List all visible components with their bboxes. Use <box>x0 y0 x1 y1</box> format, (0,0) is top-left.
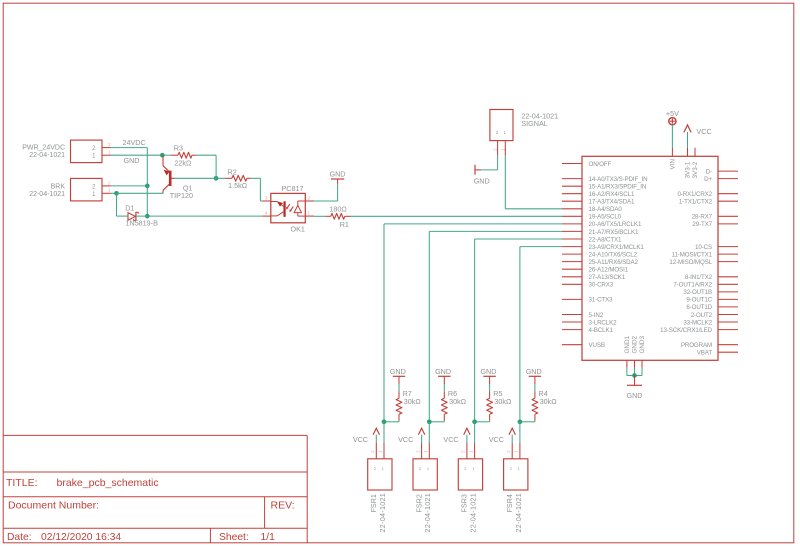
svg-text:11-MOSI/CTX1: 11-MOSI/CTX1 <box>672 251 713 258</box>
svg-text:VIN: VIN <box>670 159 677 170</box>
svg-text:23-A9/CRX1/MCLK1: 23-A9/CRX1/MCLK1 <box>589 244 645 251</box>
svg-text:VBAT: VBAT <box>697 350 713 357</box>
svg-text:1: 1 <box>514 450 519 453</box>
svg-text:PROGRAM: PROGRAM <box>681 342 712 349</box>
svg-text:22-A8/CTX1: 22-A8/CTX1 <box>589 236 623 243</box>
svg-text:22-04-1021: 22-04-1021 <box>29 191 65 198</box>
svg-text:1: 1 <box>500 148 505 151</box>
svg-text:2: 2 <box>370 450 375 453</box>
svg-text:R3: R3 <box>174 143 183 152</box>
svg-text:1: 1 <box>308 211 311 216</box>
pin 1 stub BRK <box>102 188 111 194</box>
svg-text:FSR4: FSR4 <box>505 494 514 512</box>
supply VCC at FSR2 <box>398 428 425 444</box>
connector FSR1 <box>368 443 392 533</box>
svg-text:R2: R2 <box>228 167 237 176</box>
svg-text:21-A7/RX5/BCLK1: 21-A7/RX5/BCLK1 <box>589 229 639 236</box>
svg-text:D+: D+ <box>704 176 712 183</box>
svg-text:22-04-1021: 22-04-1021 <box>378 493 387 533</box>
svg-text:PC817: PC817 <box>282 184 304 193</box>
connector SIGNAL X3 <box>490 110 558 141</box>
wire 24VDC horizontal from PWR pin2 <box>111 147 147 149</box>
svg-text:26-A12/MOSI1: 26-A12/MOSI1 <box>589 267 629 274</box>
svg-text:19-A5/SCL0: 19-A5/SCL0 <box>589 214 622 221</box>
svg-text:2: 2 <box>496 130 499 135</box>
wire VCC to FSR2 pin2 <box>421 435 423 443</box>
connector BRK X1 <box>29 178 102 201</box>
svg-text:3V3-1: 3V3-1 <box>685 161 692 178</box>
pin 2 stub SIGNAL <box>492 141 497 155</box>
svg-text:VCC: VCC <box>398 435 413 444</box>
svg-text:1: 1 <box>382 466 385 471</box>
wire BRK pin1 to Q1 emitter <box>117 192 164 194</box>
svg-text:0-RX1/CRX2: 0-RX1/CRX2 <box>677 191 712 198</box>
svg-text:9-OUT1C: 9-OUT1C <box>686 297 712 304</box>
junction 24VDC / BRK pin2 <box>145 184 150 189</box>
resistor R3 22k <box>174 143 192 167</box>
junction GND join <box>632 373 637 378</box>
svg-text:7-OUT1A/RX2: 7-OUT1A/RX2 <box>673 282 712 289</box>
svg-text:VCC: VCC <box>443 435 458 444</box>
svg-text:+5V: +5V <box>666 109 679 118</box>
svg-text:OK1: OK1 <box>291 224 305 233</box>
svg-text:4: 4 <box>265 211 268 216</box>
svg-text:2: 2 <box>464 466 467 471</box>
wire SIGNAL pin1 to IC pin 18-A4 <box>505 155 562 209</box>
svg-text:1: 1 <box>427 466 430 471</box>
wire GND1 GND2 GND3 join <box>627 368 642 376</box>
wire Q1 base to node <box>175 177 226 179</box>
svg-text:R1: R1 <box>340 220 349 229</box>
svg-text:2-OUT2: 2-OUT2 <box>691 312 713 319</box>
svg-text:1: 1 <box>518 466 521 471</box>
connector FSR4 <box>504 443 528 533</box>
supply VCC at 3V3-1 <box>684 125 712 136</box>
wire OK1 pin1 to R1 <box>314 215 325 217</box>
ground GND at OK1 pin2 <box>330 169 346 184</box>
svg-text:30kΩ: 30kΩ <box>449 397 467 406</box>
wire R5 to node <box>475 421 490 422</box>
svg-text:PWR_24VDC: PWR_24VDC <box>22 145 65 152</box>
svg-text:2: 2 <box>92 184 96 190</box>
svg-text:GND: GND <box>480 367 496 376</box>
wire R1 to IC pin 19-A5 <box>351 215 562 217</box>
opto-coupler OK1 PC817 <box>262 184 314 233</box>
svg-text:2: 2 <box>506 450 511 453</box>
pin 2 stub PWR <box>102 142 111 148</box>
svg-text:15-A1/RX3/SPDIF_IN: 15-A1/RX3/SPDIF_IN <box>589 184 647 191</box>
svg-text:D-: D- <box>706 168 712 175</box>
ground GND above R6 <box>435 367 451 384</box>
wire VCC to FSR3 pin2 <box>466 435 468 443</box>
svg-text:18-A4/SDA0: 18-A4/SDA0 <box>589 206 623 213</box>
svg-text:14-A0/TX3/S-PDIF_IN: 14-A0/TX3/S-PDIF_IN <box>589 176 648 183</box>
svg-text:TIP120: TIP120 <box>170 191 193 200</box>
net label 24VDC <box>123 138 146 147</box>
resistor R7 30k <box>396 389 421 420</box>
svg-text:1/1: 1/1 <box>261 532 276 543</box>
svg-text:1: 1 <box>108 188 111 193</box>
svg-text:VUSB: VUSB <box>589 342 605 349</box>
resistor R2 1.5k <box>225 167 251 190</box>
svg-text:1: 1 <box>423 450 428 453</box>
junction BRK pin1 / D1 anode <box>114 191 119 196</box>
wire R4 to node <box>520 421 535 422</box>
wire IC pin to FSR4 column <box>520 247 562 422</box>
wire VCC to FSR4 pin2 <box>511 435 513 443</box>
svg-text:24VDC: 24VDC <box>123 138 146 147</box>
connector FSR2 <box>413 443 437 533</box>
diode D1 1N5819-B <box>125 203 158 227</box>
svg-text:FSR1: FSR1 <box>369 494 378 512</box>
svg-text:1: 1 <box>504 130 507 135</box>
svg-text:2: 2 <box>108 180 111 185</box>
connector PWR_24VDC X2 <box>22 140 102 163</box>
svg-text:8-IN1/TX2: 8-IN1/TX2 <box>685 274 713 281</box>
svg-text:22-04-1021: 22-04-1021 <box>469 493 478 533</box>
wire VCC to FSR1 pin2 <box>375 435 377 443</box>
svg-text:GND3: GND3 <box>639 336 646 354</box>
svg-text:2: 2 <box>92 146 96 152</box>
wire node to R3 <box>162 154 178 156</box>
svg-text:30kΩ: 30kΩ <box>540 397 558 406</box>
svg-text:1: 1 <box>92 192 96 198</box>
title block <box>3 435 307 543</box>
svg-text:2: 2 <box>415 450 420 453</box>
wire PWR pin1 to node <box>111 154 162 156</box>
svg-text:30kΩ: 30kΩ <box>494 397 512 406</box>
svg-text:GND: GND <box>435 367 451 376</box>
junction FSR2 node <box>427 419 432 424</box>
svg-text:1: 1 <box>108 150 111 155</box>
svg-text:3: 3 <box>265 196 268 201</box>
svg-text:GND: GND <box>627 391 643 400</box>
svg-text:1-TX1/CTX2: 1-TX1/CTX2 <box>679 199 713 206</box>
wire OK1 pin2 to GND <box>314 184 338 201</box>
svg-text:33-MCLK2: 33-MCLK2 <box>683 319 712 326</box>
svg-text:32-OUT1B: 32-OUT1B <box>683 289 712 296</box>
pin 2 stub BRK <box>102 180 111 186</box>
wire D1 anode horizontal <box>117 215 129 217</box>
svg-text:31-CTX3: 31-CTX3 <box>589 297 614 304</box>
svg-text:10-CS: 10-CS <box>695 244 712 251</box>
net label GND (PWR pin1 net) <box>124 156 140 165</box>
wire D1 cathode to OK1 pin4 <box>136 215 262 217</box>
svg-text:GND: GND <box>330 169 346 178</box>
junction PWR pin1 / R3 / Q1 collector <box>160 153 165 158</box>
wire SIGNAL pin2 to GND <box>481 155 498 170</box>
svg-text:REV:: REV: <box>271 500 295 512</box>
junction FSR1 node <box>382 419 387 424</box>
svg-text:180Ω: 180Ω <box>329 204 347 213</box>
svg-text:GND: GND <box>474 177 490 186</box>
wire node to FSR4 pin1 <box>519 422 521 443</box>
svg-text:3V3-2: 3V3-2 <box>692 161 699 178</box>
wire D1 anode vertical <box>116 193 118 216</box>
svg-text:2: 2 <box>108 142 111 147</box>
svg-text:22kΩ: 22kΩ <box>174 158 192 167</box>
svg-text:GND1: GND1 <box>624 336 631 354</box>
wire IC pin to FSR2 column <box>429 231 562 421</box>
svg-text:24-A10/TX6/SCL2: 24-A10/TX6/SCL2 <box>589 251 638 258</box>
svg-text:BRK: BRK <box>51 183 66 190</box>
svg-text:20-A6/TX5/LRCLK1: 20-A6/TX5/LRCLK1 <box>589 221 642 228</box>
wire +5V to VIN <box>671 125 673 148</box>
svg-text:1: 1 <box>378 450 383 453</box>
wire GND to R5 <box>489 384 491 392</box>
wire GND to R4 <box>534 384 536 392</box>
svg-text:30-CRX3: 30-CRX3 <box>589 282 614 289</box>
svg-text:VCC: VCC <box>353 435 368 444</box>
svg-text:22-04-1021: 22-04-1021 <box>514 493 523 533</box>
svg-text:29-TX7: 29-TX7 <box>692 221 712 228</box>
svg-text:28-RX7: 28-RX7 <box>692 214 713 221</box>
svg-text:25-A11/RX6/SDA2: 25-A11/RX6/SDA2 <box>589 259 639 266</box>
svg-text:22-04-1021: 22-04-1021 <box>29 152 65 159</box>
wire IC pin to FSR1 column <box>384 224 562 422</box>
svg-text:16-A2/RX4/SCL1: 16-A2/RX4/SCL1 <box>589 191 635 198</box>
ground GND above R7 <box>390 367 406 384</box>
svg-text:FSR2: FSR2 <box>414 494 423 512</box>
svg-text:Document Number:: Document Number: <box>8 500 99 512</box>
resistor R1 180ohm <box>325 204 351 229</box>
svg-text:02/12/2020 16:34: 02/12/2020 16:34 <box>41 532 121 543</box>
wire node to FSR1 pin1 <box>383 422 385 443</box>
wire 24VDC vertical <box>146 148 148 217</box>
pin 1 stub PWR <box>102 150 111 156</box>
svg-text:2: 2 <box>461 450 466 453</box>
svg-text:17-A3/TX4/SDA1: 17-A3/TX4/SDA1 <box>589 199 635 206</box>
svg-text:TITLE:: TITLE: <box>6 477 38 489</box>
svg-text:1N5819-B: 1N5819-B <box>126 218 159 227</box>
wire GND to R6 <box>443 384 445 392</box>
transistor Q1 TIP120 <box>163 155 193 200</box>
svg-text:5-IN2: 5-IN2 <box>589 312 604 319</box>
junction FSR3 node <box>472 419 477 424</box>
svg-text:3-LRCLK2: 3-LRCLK2 <box>589 319 618 326</box>
svg-text:2: 2 <box>510 466 513 471</box>
svg-text:GND: GND <box>124 156 140 165</box>
supply +5V <box>666 109 679 125</box>
svg-text:GND: GND <box>526 367 542 376</box>
wire IC pin to FSR3 column <box>475 239 562 422</box>
svg-text:1: 1 <box>92 154 96 160</box>
svg-text:22-04-1021: 22-04-1021 <box>423 493 432 533</box>
wire BRK pin1 <box>111 192 117 194</box>
svg-text:D1: D1 <box>125 203 134 212</box>
supply VCC at FSR4 <box>489 428 516 444</box>
wire node to FSR3 pin1 <box>474 422 476 443</box>
resistor R5 30k <box>487 389 512 420</box>
pin 1 stub SIGNAL <box>500 141 505 155</box>
svg-text:Sheet:: Sheet: <box>219 532 249 543</box>
svg-text:1.5kΩ: 1.5kΩ <box>228 181 248 190</box>
connector FSR3 <box>458 443 482 533</box>
wire GND to R7 <box>398 384 400 392</box>
ground GND above R4 <box>526 367 542 384</box>
supply VCC at FSR1 <box>353 428 380 444</box>
svg-text:2: 2 <box>492 148 497 151</box>
svg-text:2: 2 <box>419 466 422 471</box>
IC U1 Teensy 4.0 <box>562 148 738 368</box>
wire VCC to 3V3-1 <box>687 132 689 148</box>
svg-text:2: 2 <box>308 196 311 201</box>
ground GND below IC <box>627 376 643 401</box>
svg-text:Date:: Date: <box>7 532 32 543</box>
junction R3 / Q1 base / R2 <box>214 176 219 181</box>
svg-text:27-A13/SCK1: 27-A13/SCK1 <box>589 274 626 281</box>
svg-text:SIGNAL: SIGNAL <box>521 119 547 128</box>
svg-text:GND: GND <box>390 367 406 376</box>
svg-text:4-BCLK1: 4-BCLK1 <box>589 327 614 334</box>
svg-text:brake_pcb_schematic: brake_pcb_schematic <box>57 477 159 489</box>
svg-text:VCC: VCC <box>697 127 712 136</box>
svg-text:1: 1 <box>468 450 473 453</box>
svg-text:13-SCK/CRX1/LED: 13-SCK/CRX1/LED <box>660 327 712 334</box>
wire R6 to node <box>429 421 444 422</box>
ground GND above R5 <box>480 367 496 384</box>
svg-text:6-OUT1D: 6-OUT1D <box>686 304 712 311</box>
ground GND at SIGNAL <box>474 165 490 186</box>
svg-text:GND2: GND2 <box>632 336 639 354</box>
junction FSR4 node <box>518 419 523 424</box>
supply VCC at FSR3 <box>443 428 470 444</box>
wire R3 to corner <box>192 155 216 178</box>
resistor R4 30k <box>532 389 557 420</box>
svg-text:ON/OFF: ON/OFF <box>589 161 612 168</box>
wire R7 to node <box>384 421 399 422</box>
junction 24VDC / D1 cathode <box>145 214 150 219</box>
wire node to FSR2 pin1 <box>428 422 430 443</box>
wire R2 to OK1 pin3 <box>251 178 262 201</box>
svg-text:2: 2 <box>374 466 377 471</box>
resistor R6 30k <box>441 389 466 420</box>
svg-text:FSR3: FSR3 <box>460 494 469 512</box>
svg-text:1: 1 <box>472 466 475 471</box>
svg-text:30kΩ: 30kΩ <box>404 397 422 406</box>
svg-text:VCC: VCC <box>489 435 504 444</box>
wire BRK pin2 to 24VDC <box>111 185 147 187</box>
svg-text:12-MISO/MQSL: 12-MISO/MQSL <box>669 259 712 266</box>
